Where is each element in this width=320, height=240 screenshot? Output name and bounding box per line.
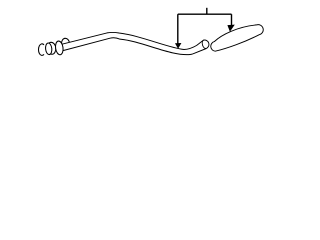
clamp ring 1 <box>38 44 44 56</box>
callout bracket <box>178 13 232 15</box>
bracket tick <box>206 8 208 14</box>
left leader line <box>177 14 179 43</box>
left arrowhead <box>175 43 181 49</box>
hose cuff <box>55 41 64 56</box>
right leader line <box>231 14 233 25</box>
clamp ring 3 <box>47 42 57 55</box>
right arrowhead <box>227 25 234 32</box>
hose end opening <box>202 40 206 48</box>
clamp ring 2 <box>45 43 52 55</box>
short hose segment <box>211 25 263 52</box>
hose outline <box>62 32 209 54</box>
fitting bump <box>61 38 70 49</box>
hose body fill <box>62 32 209 54</box>
